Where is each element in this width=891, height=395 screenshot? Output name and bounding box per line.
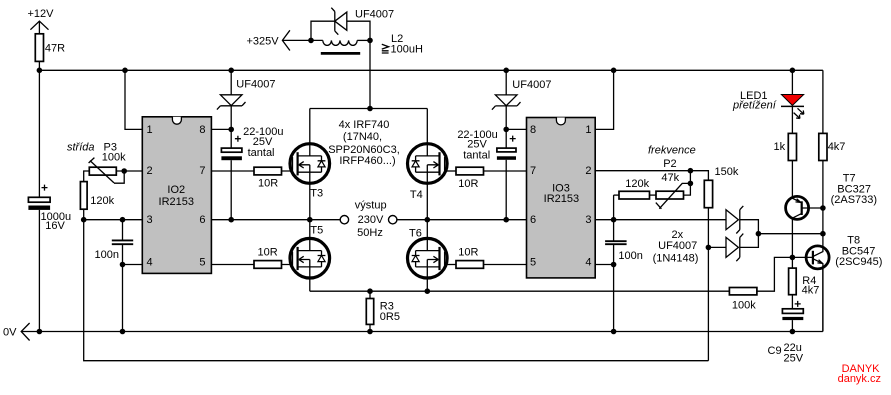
node dot P3 wiper/pin2 bbox=[121, 168, 127, 174]
svg-text:3: 3 bbox=[147, 214, 153, 226]
svg-text:8: 8 bbox=[530, 124, 536, 136]
svg-text:UF4007: UF4007 bbox=[236, 78, 275, 90]
svg-text:C9: C9 bbox=[768, 345, 782, 357]
svg-text:100n: 100n bbox=[618, 250, 642, 262]
wire output left bbox=[310, 219, 340, 221]
svg-text:0R5: 0R5 bbox=[380, 311, 400, 323]
svg-text:T6: T6 bbox=[409, 228, 422, 240]
resistor 10R (T5 gate) bbox=[254, 247, 282, 269]
svg-text:120k: 120k bbox=[625, 178, 649, 190]
wire 100n column to 0V bbox=[122, 265, 124, 332]
svg-text:(1N4148): (1N4148) bbox=[653, 252, 699, 264]
node dot H-bridge top center bbox=[367, 106, 373, 112]
svg-text:1k: 1k bbox=[774, 141, 786, 153]
wire rail right corner down to 4k7 bbox=[822, 70, 824, 133]
node dot T6 source bbox=[425, 288, 431, 294]
svg-text:6: 6 bbox=[199, 214, 205, 226]
svg-text:2: 2 bbox=[147, 165, 153, 177]
node +325V arrow bbox=[247, 30, 290, 50]
node dot C9/0V bbox=[790, 329, 796, 335]
wire 0V rail right corner up to T8 emitter bbox=[822, 264, 824, 331]
diode UF4007 lower (charge pump) bbox=[708, 234, 758, 262]
wire T6 gate to 10R bbox=[446, 264, 456, 266]
resistor 4k7 (upper) bbox=[819, 133, 846, 160]
wire +325V to inductor bbox=[282, 39, 322, 41]
capacitor 100n (right) bbox=[605, 220, 643, 265]
svg-text:(2SC945): (2SC945) bbox=[835, 256, 882, 268]
svg-text:tantal: tantal bbox=[463, 150, 490, 162]
svg-text:IR2153: IR2153 bbox=[159, 196, 194, 208]
potentiometer P2 47k bbox=[656, 171, 691, 209]
svg-text:5: 5 bbox=[199, 256, 205, 268]
resistor 10R (T6 gate) bbox=[456, 247, 484, 269]
svg-text:5: 5 bbox=[530, 256, 536, 268]
wire H-bridge top bbox=[310, 108, 428, 110]
svg-text:P2: P2 bbox=[663, 158, 676, 170]
svg-text:+325V: +325V bbox=[247, 35, 280, 47]
node dot IO3 pin8/diode/tantal bbox=[503, 127, 509, 133]
svg-text:(17N40,: (17N40, bbox=[343, 131, 382, 143]
resistor 10R (T4 gate) bbox=[456, 167, 484, 190]
node dot tantal/pin6 row IO3 bbox=[503, 217, 509, 223]
node dot P2/pin2 row bbox=[688, 168, 694, 174]
wire 47R to +12V rail bbox=[38, 61, 40, 70]
node junction dot 47R/rail bbox=[37, 68, 43, 74]
node dot T7 base/4k7 bbox=[820, 205, 826, 211]
svg-text:230V: 230V bbox=[358, 214, 384, 226]
node dot 120k/pin3 bbox=[81, 217, 87, 223]
resistor 150k bbox=[704, 166, 739, 208]
diode UF4007 upper (charge pump) bbox=[726, 206, 758, 234]
capacitor 1000u/16V bbox=[28, 185, 71, 232]
node dot output left bbox=[307, 217, 313, 223]
wire source rail bbox=[310, 290, 730, 292]
node dot R3 top bbox=[367, 288, 373, 294]
node dot 100n/pin4 bbox=[120, 262, 126, 268]
wire 100n column to 0V bbox=[613, 265, 615, 332]
svg-text:7: 7 bbox=[530, 165, 536, 177]
wire +12V rail bbox=[39, 69, 823, 71]
svg-text:100uH: 100uH bbox=[391, 43, 423, 55]
svg-text:tantal: tantal bbox=[248, 147, 275, 159]
svg-text:120k: 120k bbox=[90, 195, 114, 207]
svg-text:T4: T4 bbox=[410, 189, 423, 201]
wire IO2 pin1 riser bbox=[125, 70, 142, 129]
wire 10R to IO3 pin5 bbox=[484, 264, 527, 266]
node dot diode output/4k7 column bbox=[820, 231, 826, 237]
wire L2 to H-bridge center bbox=[369, 40, 371, 108]
transistor T3 (IRF740) bbox=[290, 109, 330, 220]
wire 1000u column bbox=[38, 70, 40, 197]
terminal output circle right bbox=[389, 216, 397, 224]
wire pin7 row bbox=[211, 170, 292, 172]
wire IO3 pin4 row bbox=[595, 264, 613, 266]
IC IO2 IR2153 bbox=[142, 117, 211, 274]
node dot 100n/pin3 bbox=[120, 217, 126, 223]
svg-text:1: 1 bbox=[147, 124, 153, 136]
node dot pin8/diode/tantal bbox=[228, 127, 234, 133]
capacitor 22-100u 25V tantal (right) bbox=[457, 129, 516, 220]
svg-text:8: 8 bbox=[199, 124, 205, 136]
svg-text:10R: 10R bbox=[258, 247, 278, 259]
svg-text:47k: 47k bbox=[661, 172, 679, 184]
svg-text:IR2153: IR2153 bbox=[544, 193, 579, 205]
wire IO3 pin1 riser bbox=[595, 70, 613, 129]
wire pin3 row bbox=[84, 219, 143, 221]
wire 1000u to 0V rail bbox=[38, 210, 40, 332]
terminal output circle left bbox=[340, 216, 348, 224]
diode UF4007 (across L2) bbox=[311, 8, 394, 41]
svg-text:100n: 100n bbox=[95, 249, 119, 261]
svg-text:150k: 150k bbox=[715, 166, 739, 178]
resistor 120k (right) bbox=[614, 178, 656, 220]
wire 120k to pin3 row bbox=[83, 209, 85, 220]
svg-text:47R: 47R bbox=[45, 42, 65, 54]
svg-text:1: 1 bbox=[585, 124, 591, 136]
svg-text:T3: T3 bbox=[310, 187, 323, 199]
svg-text:danyk.cz: danyk.cz bbox=[838, 373, 881, 385]
transistor T8 BC547 bbox=[792, 234, 882, 332]
svg-text:2: 2 bbox=[585, 165, 591, 177]
svg-text:25V: 25V bbox=[784, 353, 804, 365]
svg-text:T7: T7 bbox=[843, 172, 856, 184]
transistor T7 BC327 bbox=[786, 172, 877, 257]
wire T4 gate to 10R bbox=[446, 170, 456, 172]
IC IO3 IR2153 bbox=[527, 118, 596, 278]
wire 0V rail bbox=[21, 331, 823, 333]
transistor T5 (IRF740) bbox=[290, 220, 330, 292]
svg-text:IO2: IO2 bbox=[167, 184, 185, 196]
svg-text:UF4007: UF4007 bbox=[658, 240, 697, 252]
svg-text:výstup: výstup bbox=[355, 200, 387, 212]
wire pin6 row to output bbox=[211, 219, 309, 221]
svg-text:10R: 10R bbox=[458, 247, 478, 259]
node dot output right bbox=[425, 217, 431, 223]
potentiometer P3 100k (strida) bbox=[67, 142, 142, 184]
wire output right bbox=[397, 219, 427, 221]
node dot pin3/120k/100n bbox=[611, 217, 617, 223]
wire pin8 row bbox=[211, 128, 231, 130]
svg-text:6: 6 bbox=[530, 214, 536, 226]
svg-text:16V: 16V bbox=[45, 220, 65, 232]
resistor 100k (feedback) bbox=[729, 257, 792, 311]
node dot 0V/100n column bbox=[120, 329, 126, 335]
label vystup 230V 50Hz bbox=[355, 200, 387, 239]
node dot T8 base/T7 collector/R4/100k bbox=[790, 255, 796, 261]
wire IO3 pin3 row to diode bbox=[595, 219, 726, 221]
resistor R 47R bbox=[35, 34, 65, 62]
node dot 1000u/0V bbox=[37, 329, 43, 335]
diode UF4007 (IO3 bootstrap) bbox=[492, 70, 552, 129]
svg-text:UF4007: UF4007 bbox=[355, 8, 394, 20]
wire 4k7 to T7 base bbox=[822, 161, 824, 234]
capacitor 22-100u 25V tantal (left) bbox=[221, 126, 283, 220]
resistor R3 0R5 bbox=[366, 291, 400, 331]
svg-text:10R: 10R bbox=[458, 178, 478, 190]
svg-text:T5: T5 bbox=[310, 224, 323, 236]
node dot rail/pin1 bbox=[122, 68, 128, 74]
svg-text:přetížení: přetížení bbox=[732, 99, 777, 111]
node dot diode cathodes join bbox=[756, 231, 762, 237]
transistor T6 (IRF740) bbox=[408, 220, 448, 292]
svg-text:(2AS733): (2AS733) bbox=[831, 194, 877, 206]
wire IO3 pin2 row to 150k bbox=[595, 171, 708, 181]
resistor 1k bbox=[774, 133, 797, 160]
svg-text:+12V: +12V bbox=[28, 8, 55, 20]
diode UF4007 (IO2 bootstrap) bbox=[217, 70, 276, 129]
svg-text:IRFP460...): IRFP460...) bbox=[339, 155, 395, 167]
node dot L2 right bbox=[367, 38, 373, 44]
node dot pin4/100n bbox=[611, 262, 617, 268]
node dot rail/diode bbox=[228, 68, 234, 74]
svg-text:4: 4 bbox=[147, 256, 153, 268]
wire 150k down to feedback line bbox=[707, 208, 709, 361]
capacitor 100n (left) bbox=[95, 220, 134, 265]
svg-text:4: 4 bbox=[585, 256, 591, 268]
resistor 10R (T3 gate) bbox=[254, 167, 282, 189]
LED1 pretizeni bbox=[732, 70, 804, 133]
label frekvence P2 47k bbox=[648, 145, 696, 184]
node +12V supply arrow bbox=[28, 8, 55, 34]
svg-text:0V: 0V bbox=[3, 327, 17, 339]
node dot rail/pin1 IO3 bbox=[611, 68, 617, 74]
node dot tantal/pin6 row bbox=[228, 217, 234, 223]
wire IO3 pin8 row bbox=[506, 128, 526, 130]
transistor T4 (IRF740) bbox=[408, 109, 448, 220]
label 2x UF4007 (1N4148) bbox=[653, 229, 699, 264]
wire output right to IO3 pin6 bbox=[427, 219, 526, 221]
svg-text:100k: 100k bbox=[102, 152, 126, 164]
node dot P2 wiper bbox=[688, 181, 694, 187]
node dot lower diode anode bbox=[706, 245, 712, 251]
svg-text:3: 3 bbox=[585, 214, 591, 226]
node dot R3 bottom 0V bbox=[367, 329, 373, 335]
svg-text:UF4007: UF4007 bbox=[512, 79, 551, 91]
node dot L2 left bbox=[308, 38, 314, 44]
node dot rail/diode IO3 bbox=[503, 68, 509, 74]
inductor L2 bbox=[321, 33, 423, 55]
capacitor C9 22u 25V bbox=[768, 295, 804, 365]
wire pin5 row bbox=[211, 264, 292, 266]
resistor 120k (left) bbox=[80, 182, 114, 210]
svg-text:frekvence: frekvence bbox=[648, 145, 696, 157]
wire feedback from pin3 junction down and right bbox=[84, 220, 709, 361]
svg-text:4k7: 4k7 bbox=[828, 141, 846, 153]
wire 10R to IO3 pin7 bbox=[484, 170, 527, 172]
svg-text:4k7: 4k7 bbox=[802, 285, 820, 297]
wire 1k to T7 emitter bbox=[791, 161, 793, 197]
wire pin4 row bbox=[123, 264, 143, 266]
node dot rail/LED bbox=[790, 68, 796, 74]
svg-text:50Hz: 50Hz bbox=[357, 227, 383, 239]
svg-text:4x IRF740: 4x IRF740 bbox=[339, 119, 390, 131]
svg-text:10R: 10R bbox=[258, 178, 278, 190]
wire diode output to 4k7 column bbox=[758, 233, 823, 235]
label DANYK danyk.cz bbox=[838, 363, 881, 385]
node 0V arrow bbox=[3, 323, 30, 341]
label 4x IRF740 types bbox=[328, 119, 400, 167]
node dot 0V/IO3 column bbox=[611, 329, 617, 335]
svg-text:100k: 100k bbox=[732, 300, 756, 312]
svg-text:7: 7 bbox=[199, 165, 205, 177]
resistor R4 4k7 bbox=[789, 257, 820, 296]
svg-text:střída: střída bbox=[67, 142, 95, 154]
